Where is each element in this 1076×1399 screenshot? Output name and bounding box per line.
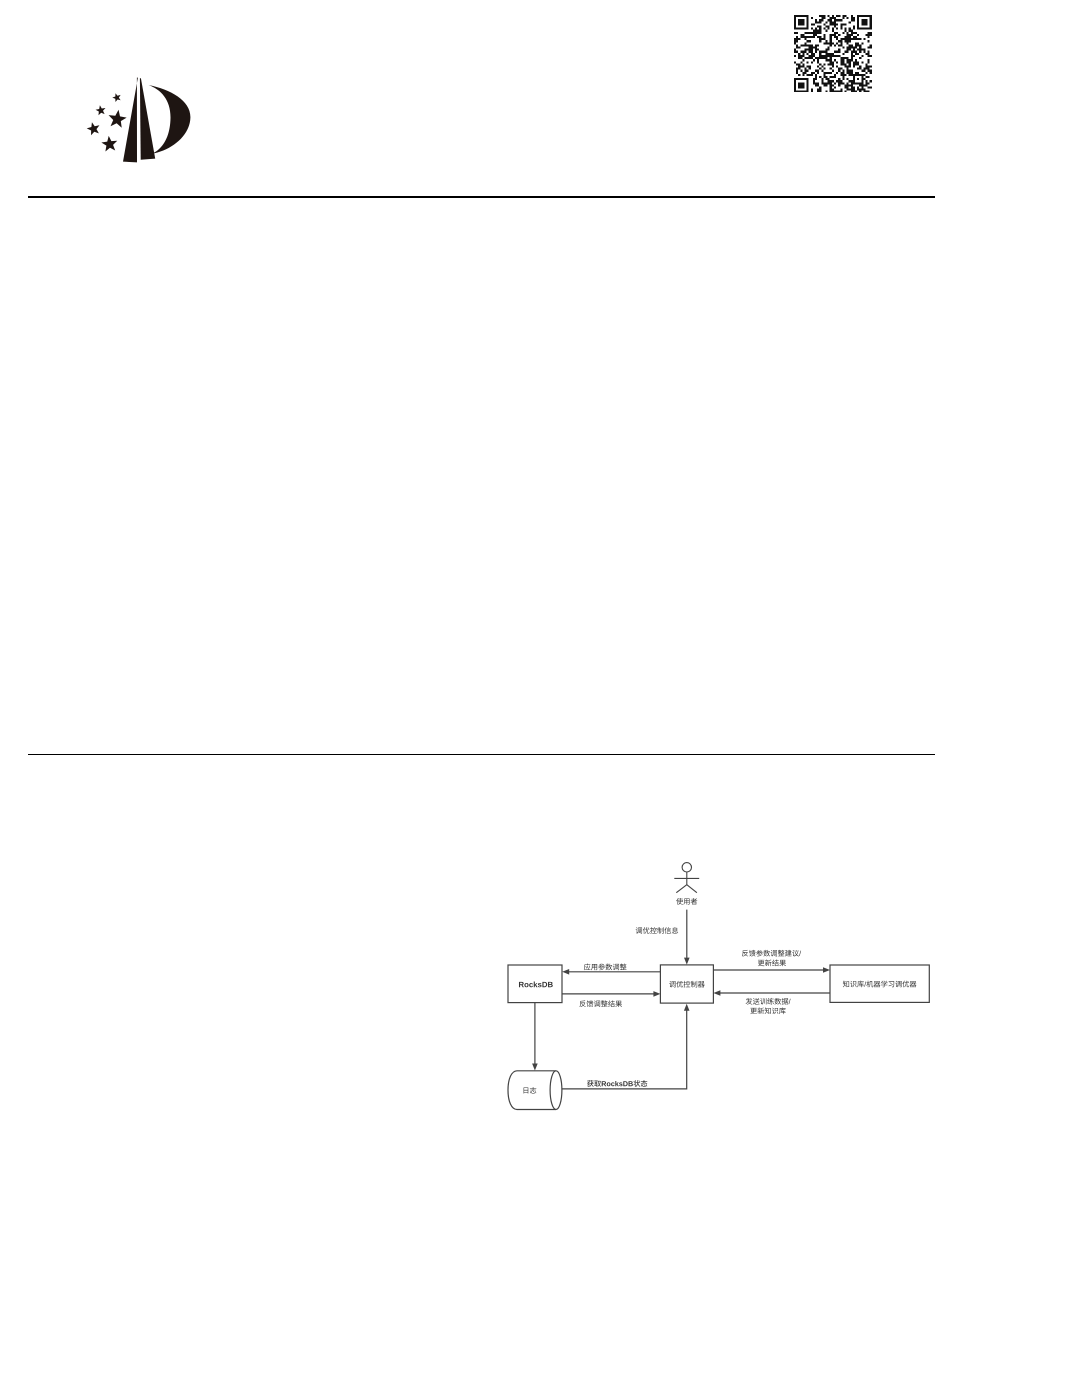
logo star 3 — [109, 110, 127, 128]
label RocksDB — [519, 982, 553, 988]
CNIPA logo — [0, 0, 220, 190]
box 知识库/机器学习调优器 (knowledge base / ML tuner) — [830, 965, 929, 1002]
wire: actor to controller, 调优控制信息 — [686, 910, 688, 958]
header rule — [28, 196, 935, 198]
label 更新结果 — [758, 960, 786, 967]
label 应用参数调整 — [584, 963, 627, 970]
logo star 5 — [101, 136, 117, 152]
CNIPA emblem crescent — [149, 85, 191, 154]
CNIPA emblem tower left half — [123, 78, 138, 163]
wire: 日志 to controller bottom, 获取RocksDB状态 — [562, 1010, 687, 1089]
logo star 2 — [96, 105, 106, 115]
box RocksDB — [508, 965, 562, 1003]
label 调优控制器 — [669, 981, 704, 988]
datastore cylinder 日志 (log) — [508, 1071, 556, 1110]
QR code — [794, 15, 872, 93]
wire: knowledge base to controller, 发送训练数据/更新知识库 — [720, 992, 830, 994]
label 调优控制信息 — [636, 927, 678, 934]
wire: controller to knowledge base, 反馈参数调整建议/更新结果 — [713, 969, 823, 971]
label 知识库/机器学习调优器 — [843, 981, 917, 988]
actor 使用者 (user) stick figure — [674, 863, 699, 893]
CNIPA emblem tower right half — [140, 78, 155, 160]
wire: RocksDB to controller, 反馈调整结果 — [562, 993, 654, 995]
wire: controller to RocksDB, 应用参数调整 — [569, 971, 661, 973]
label 反馈调整结果 — [579, 1000, 622, 1007]
logo star 4 — [87, 122, 100, 135]
label 日志 — [524, 1087, 537, 1094]
label 获取RocksDB状态 — [587, 1080, 647, 1087]
label 更新知识库 — [750, 1007, 785, 1014]
box 调优控制器 (tuning controller) — [660, 965, 713, 1003]
wire: RocksDB down to 日志 log store — [534, 1003, 536, 1064]
section rule — [28, 754, 935, 756]
label 反馈参数调整建议/ — [742, 950, 801, 957]
label 使用者 — [676, 898, 697, 905]
logo star 1 — [112, 93, 120, 102]
label 发送训练数据/ — [746, 998, 791, 1005]
